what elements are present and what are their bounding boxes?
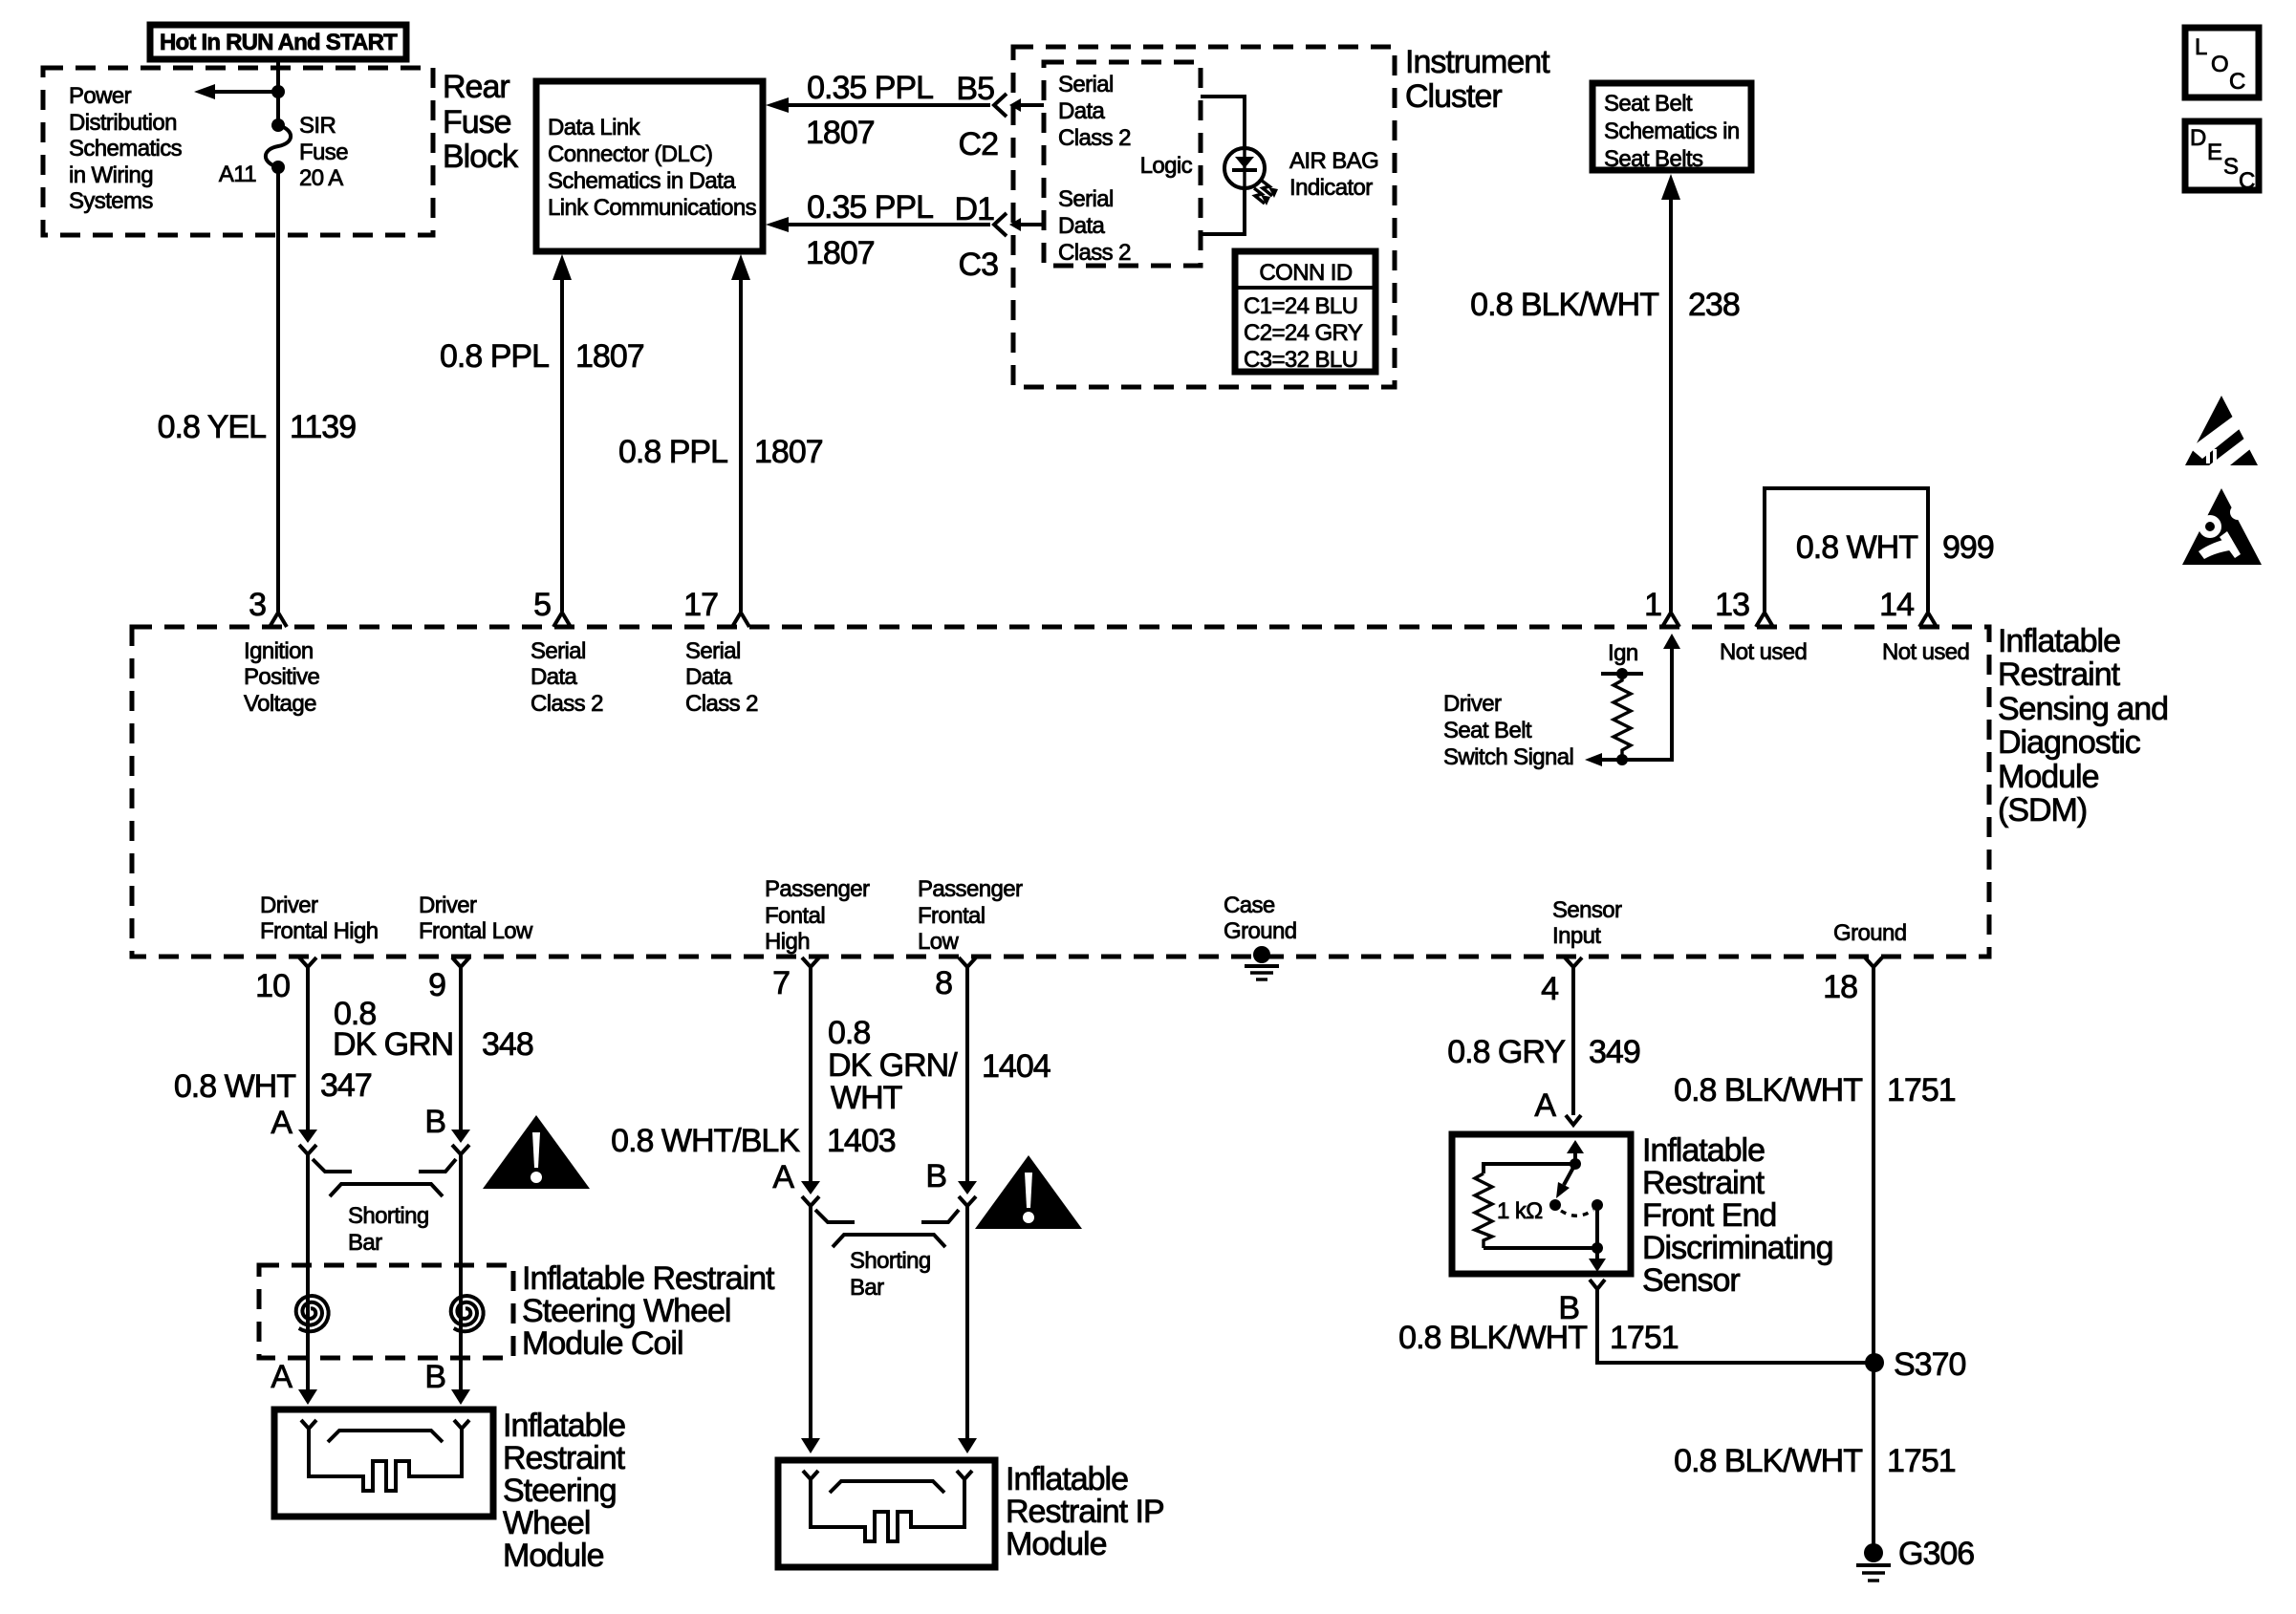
svg-text:A: A bbox=[1534, 1087, 1556, 1124]
svg-text:1807: 1807 bbox=[754, 434, 823, 470]
svg-text:Driver: Driver bbox=[260, 893, 318, 918]
wire from Hot In RUN to fuse bbox=[276, 57, 280, 125]
arrow from instrument cluster D1 bbox=[1009, 218, 1044, 231]
svg-text:1807: 1807 bbox=[806, 115, 875, 151]
svg-text:Logic: Logic bbox=[1140, 153, 1193, 179]
svg-text:Restraint: Restraint bbox=[1642, 1165, 1765, 1201]
svg-text:Schematics: Schematics bbox=[69, 136, 183, 161]
svg-text:1139: 1139 bbox=[290, 409, 356, 445]
svg-text:Ground: Ground bbox=[1224, 918, 1296, 944]
svg-text:C1=24 BLU: C1=24 BLU bbox=[1244, 293, 1357, 319]
terminal B (sensor) bbox=[1558, 1280, 1605, 1326]
svg-text:Low: Low bbox=[918, 929, 959, 955]
svg-text:S: S bbox=[2223, 154, 2238, 180]
svg-text:9: 9 bbox=[428, 967, 445, 1003]
LOC box bbox=[2185, 28, 2259, 97]
svg-text:Frontal High: Frontal High bbox=[260, 918, 379, 944]
pin 7 connector bbox=[802, 958, 819, 967]
svg-text:Sensor: Sensor bbox=[1552, 897, 1622, 923]
svg-text:1751: 1751 bbox=[1887, 1443, 1956, 1479]
svg-text:0.8 WHT: 0.8 WHT bbox=[1796, 529, 1917, 566]
wire 0.8 DK GRN/WHT 1404 pin 8 bbox=[965, 967, 969, 1181]
wire 0.8 PPL 1807 pin 17 to DLC bbox=[731, 254, 750, 612]
svg-text:Frontal Low: Frontal Low bbox=[419, 918, 533, 944]
wire 0.8 DK GRN 348 pin 9 bbox=[459, 967, 463, 1130]
svg-text:Schematics in: Schematics in bbox=[1604, 118, 1740, 144]
IP module box bbox=[778, 1460, 995, 1567]
svg-text:1807: 1807 bbox=[806, 235, 875, 271]
svg-text:E: E bbox=[2207, 140, 2221, 165]
sensor input arrow internal bbox=[1567, 1140, 1584, 1170]
jumper wire 0.8 WHT 999 pins 13-14 bbox=[1765, 488, 1928, 612]
label 0.35 PPL 1807 (bottom) bbox=[806, 189, 933, 271]
ground G306 bbox=[1856, 1536, 1974, 1581]
label 0.8 YEL 1139 bbox=[158, 409, 357, 445]
label AIR BAG Indicator bbox=[1289, 148, 1378, 201]
terminal A (coil upper) bbox=[271, 1105, 317, 1154]
svg-text:Seat Belt: Seat Belt bbox=[1443, 718, 1532, 743]
svg-text:Connector (DLC): Connector (DLC) bbox=[548, 141, 712, 167]
svg-text:Inflatable: Inflatable bbox=[503, 1408, 625, 1444]
svg-text:1403: 1403 bbox=[827, 1123, 896, 1159]
svg-text:WHT: WHT bbox=[831, 1080, 902, 1116]
svg-text:Driver: Driver bbox=[419, 893, 477, 918]
svg-text:Seat Belts: Seat Belts bbox=[1604, 146, 1703, 172]
svg-text:Diagnostic: Diagnostic bbox=[1998, 724, 2141, 761]
wire 0.35 PPL 1807 D1/C3 to DLC bbox=[766, 217, 990, 232]
svg-text:1404: 1404 bbox=[982, 1048, 1051, 1085]
label Inflatable Restraint Steering Wheel Module bbox=[503, 1408, 626, 1574]
terminal A (IP) bbox=[772, 1159, 820, 1206]
label 0.8 BLK/WHT 238 bbox=[1470, 287, 1740, 323]
svg-text:7: 7 bbox=[772, 965, 790, 1001]
label 0.8 GRY 349 bbox=[1447, 1034, 1640, 1070]
wire B into coil bbox=[459, 1154, 463, 1391]
svg-text:C: C bbox=[2239, 168, 2255, 194]
svg-text:Steering Wheel: Steering Wheel bbox=[522, 1293, 730, 1329]
header box Hot In RUN And START bbox=[150, 25, 406, 59]
label 0.8 BLK/WHT 1751 (sensor) bbox=[1398, 1320, 1679, 1356]
svg-text:in Wiring: in Wiring bbox=[69, 162, 153, 188]
svg-text:Positive: Positive bbox=[244, 664, 319, 690]
label Rear Fuse Block bbox=[443, 69, 519, 175]
svg-text:0.8 WHT: 0.8 WHT bbox=[174, 1068, 295, 1105]
svg-text:Power: Power bbox=[69, 83, 132, 109]
svg-text:L: L bbox=[2195, 34, 2207, 60]
svg-text:Sensing and: Sensing and bbox=[1998, 691, 2168, 727]
pin 18 connector bbox=[1865, 958, 1882, 967]
svg-text:Module: Module bbox=[1006, 1526, 1107, 1562]
svg-text:Systems: Systems bbox=[69, 188, 153, 214]
svg-text:Seat Belt: Seat Belt bbox=[1604, 91, 1693, 117]
svg-text:0.8 BLK/WHT: 0.8 BLK/WHT bbox=[1674, 1443, 1862, 1479]
wire 0.8 BLK/WHT 1751 pin 18 bbox=[1872, 967, 1875, 1552]
label Ignition Positive Voltage bbox=[244, 638, 319, 717]
DESC box bbox=[2185, 121, 2259, 194]
svg-text:A11: A11 bbox=[219, 161, 256, 187]
svg-text:A: A bbox=[772, 1159, 794, 1195]
svg-text:Case: Case bbox=[1224, 893, 1275, 918]
svg-text:Ign: Ign bbox=[1608, 640, 1638, 666]
svg-text:Indicator: Indicator bbox=[1289, 175, 1373, 201]
arrow driver seat belt switch signal bbox=[1585, 753, 1622, 766]
svg-text:Distribution: Distribution bbox=[69, 110, 177, 136]
terminal B (IP) bbox=[925, 1158, 977, 1206]
svg-text:CONN ID: CONN ID bbox=[1259, 260, 1352, 286]
svg-text:0.8 PPL: 0.8 PPL bbox=[618, 434, 727, 470]
instrument cluster dashed box bbox=[1013, 47, 1395, 387]
svg-text:Switch Signal: Switch Signal bbox=[1443, 744, 1573, 770]
svg-text:Data Link: Data Link bbox=[548, 115, 641, 140]
svg-text:20 A: 20 A bbox=[299, 165, 343, 191]
arrowhead B into IP module bbox=[958, 1438, 977, 1453]
svg-text:0.8 BLK/WHT: 0.8 BLK/WHT bbox=[1398, 1320, 1587, 1356]
label 0.8 DK GRN 348 bbox=[333, 996, 533, 1063]
label Passenger Fontal High bbox=[765, 876, 870, 955]
svg-text:5: 5 bbox=[533, 587, 551, 623]
svg-text:17: 17 bbox=[683, 587, 718, 623]
svg-text:Restraint IP: Restraint IP bbox=[1006, 1494, 1164, 1530]
steering wheel module box bbox=[274, 1410, 493, 1517]
connector chevron C2 bbox=[994, 94, 1007, 117]
svg-text:347: 347 bbox=[320, 1067, 372, 1104]
wire 0.8 WHT/BLK 1403 pin 7 bbox=[809, 967, 812, 1181]
terminal A (module) bbox=[271, 1359, 317, 1405]
svg-text:D: D bbox=[2190, 125, 2206, 151]
svg-text:0.8 WHT/BLK: 0.8 WHT/BLK bbox=[611, 1123, 800, 1159]
svg-text:Data: Data bbox=[531, 664, 578, 690]
splice S370 bbox=[1865, 1346, 1965, 1383]
warning triangle (passenger) bbox=[975, 1155, 1082, 1229]
label 0.8 DK GRN/WHT 1404 bbox=[828, 1015, 1051, 1116]
label Driver Frontal High bbox=[260, 893, 379, 944]
svg-text:Fuse: Fuse bbox=[299, 140, 348, 165]
connector chevron C3 bbox=[994, 213, 1007, 236]
svg-text:DK GRN: DK GRN bbox=[333, 1026, 453, 1063]
svg-text:Wheel: Wheel bbox=[503, 1505, 590, 1541]
wire 0.8 WHT 347 pin 10 bbox=[306, 967, 310, 1130]
svg-text:10: 10 bbox=[255, 968, 290, 1004]
svg-text:Link Communications: Link Communications bbox=[548, 195, 757, 221]
svg-text:238: 238 bbox=[1688, 287, 1740, 323]
label Shorting Bar (driver) bbox=[348, 1203, 429, 1256]
squib element (steering wheel module) bbox=[301, 1420, 469, 1491]
svg-text:Instrument: Instrument bbox=[1405, 44, 1550, 80]
svg-text:High: High bbox=[765, 929, 810, 955]
arrow from instrument cluster B5 bbox=[1009, 98, 1044, 112]
label Inflatable Restraint Front End Discriminating Sensor bbox=[1642, 1132, 1833, 1299]
svg-text:Fuse: Fuse bbox=[443, 104, 511, 140]
svg-text:Class 2: Class 2 bbox=[1058, 125, 1131, 151]
svg-text:348: 348 bbox=[482, 1026, 533, 1063]
pin 10 connector bbox=[299, 958, 316, 967]
pin 13 connector bbox=[1756, 613, 1773, 627]
resistor seat belt switch pull-up bbox=[1601, 668, 1643, 765]
pin 14 connector bbox=[1919, 613, 1937, 627]
svg-text:Restraint: Restraint bbox=[503, 1440, 626, 1476]
label Power Distribution Schematics in Wiring Systems bbox=[69, 83, 183, 214]
pin 5 connector bbox=[553, 613, 571, 627]
svg-text:1: 1 bbox=[1644, 587, 1661, 623]
pin 4 connector bbox=[1565, 958, 1582, 967]
resistor 1 kOhm bbox=[1475, 1164, 1597, 1248]
svg-text:G306: G306 bbox=[1898, 1536, 1974, 1572]
wire switch to sensor B bbox=[1589, 1205, 1606, 1272]
wire A to IP module bbox=[809, 1206, 812, 1439]
label Inflatable Restraint IP Module bbox=[1006, 1461, 1164, 1562]
svg-text:Inflatable Restraint: Inflatable Restraint bbox=[522, 1260, 775, 1297]
terminal B (module) bbox=[424, 1359, 470, 1405]
wire 0.8 GRY 349 pin 4 bbox=[1571, 967, 1575, 1115]
svg-text:AIR BAG: AIR BAG bbox=[1289, 148, 1378, 174]
svg-text:Ground: Ground bbox=[1833, 920, 1906, 946]
label Inflatable Restraint Steering Wheel Module Coil bbox=[522, 1260, 775, 1362]
label 0.8 BLK/WHT 1751 (to ground) bbox=[1674, 1443, 1956, 1479]
label SIR Fuse 20 A bbox=[299, 113, 348, 191]
svg-text:Class 2: Class 2 bbox=[685, 691, 758, 717]
label 0.35 PPL 1807 (top) bbox=[806, 70, 933, 151]
fuse SIR Fuse 20 A (A11) bbox=[266, 118, 291, 174]
label Serial Data Class 2 (pin 17) bbox=[685, 638, 758, 717]
svg-text:D1: D1 bbox=[955, 191, 995, 227]
label Shorting Bar (passenger) bbox=[850, 1248, 931, 1301]
svg-text:4: 4 bbox=[1541, 971, 1558, 1007]
svg-text:0.35 PPL: 0.35 PPL bbox=[807, 189, 933, 226]
pin 3 connector bbox=[270, 613, 287, 627]
logic inner dashed box bbox=[1044, 62, 1201, 266]
rear fuse block dashed box bbox=[43, 68, 433, 235]
wire resistor to pin 1 internal bbox=[1622, 634, 1680, 760]
svg-text:Inflatable: Inflatable bbox=[1998, 623, 2120, 659]
svg-text:Driver: Driver bbox=[1443, 691, 1502, 717]
svg-text:O: O bbox=[2211, 52, 2228, 77]
svg-text:1 kΩ: 1 kΩ bbox=[1497, 1198, 1543, 1224]
pin 9 connector bbox=[452, 958, 469, 967]
svg-text:Cluster: Cluster bbox=[1405, 78, 1502, 115]
svg-text:C3: C3 bbox=[959, 247, 999, 283]
label Case Ground bbox=[1224, 893, 1296, 944]
svg-text:B: B bbox=[424, 1104, 445, 1140]
wire 0.8 BLK/WHT 238 pin 1 to seat belt bbox=[1661, 174, 1680, 612]
switch arm bbox=[1549, 1164, 1603, 1216]
svg-text:C2=24 GRY: C2=24 GRY bbox=[1244, 320, 1363, 346]
node junction dot bbox=[271, 85, 285, 98]
svg-text:Serial: Serial bbox=[1058, 72, 1114, 97]
svg-text:S370: S370 bbox=[1894, 1346, 1965, 1383]
svg-text:Block: Block bbox=[443, 139, 519, 175]
wire B to IP module bbox=[965, 1206, 969, 1439]
svg-text:Bar: Bar bbox=[850, 1275, 884, 1301]
svg-text:1807: 1807 bbox=[575, 338, 644, 375]
svg-text:8: 8 bbox=[935, 965, 952, 1001]
svg-text:C: C bbox=[2229, 69, 2245, 95]
svg-text:Sensor: Sensor bbox=[1642, 1262, 1740, 1299]
svg-text:Passenger: Passenger bbox=[765, 876, 870, 902]
pin 1 connector bbox=[1662, 613, 1679, 627]
label 0.8 WHT/BLK 1403 bbox=[611, 1123, 896, 1159]
svg-text:Input: Input bbox=[1552, 923, 1601, 949]
svg-text:Serial: Serial bbox=[1058, 186, 1114, 212]
label Inflatable Restraint Sensing and Diagnostic Module (SDM) bbox=[1998, 623, 2168, 829]
label Driver Seat Belt Switch Signal bbox=[1443, 691, 1573, 770]
label Serial Data Class 2 (lower) bbox=[1058, 186, 1131, 266]
label 0.8 BLK/WHT 1751 (pin 18) bbox=[1674, 1072, 1956, 1108]
coil dashed box bbox=[259, 1265, 513, 1358]
svg-text:Discriminating: Discriminating bbox=[1642, 1230, 1833, 1266]
svg-text:Serial: Serial bbox=[685, 638, 741, 664]
svg-text:Frontal: Frontal bbox=[918, 903, 986, 929]
svg-text:Voltage: Voltage bbox=[244, 691, 316, 717]
ESD warning triangle (static) bbox=[2185, 396, 2258, 465]
svg-text:C3=32 BLU: C3=32 BLU bbox=[1244, 347, 1357, 373]
wire logic to air bag indicator bbox=[1201, 97, 1245, 149]
seat belt schematics box bbox=[1592, 83, 1751, 172]
ESD warning triangle (air bag) bbox=[2182, 488, 2262, 565]
svg-text:Hot In RUN And START: Hot In RUN And START bbox=[160, 30, 398, 55]
svg-text:0.8 BLK/WHT: 0.8 BLK/WHT bbox=[1674, 1072, 1862, 1108]
svg-text:Not used: Not used bbox=[1882, 639, 1969, 665]
svg-text:0.8 BLK/WHT: 0.8 BLK/WHT bbox=[1470, 287, 1658, 323]
svg-text:999: 999 bbox=[1942, 529, 1994, 566]
svg-text:Not used: Not used bbox=[1720, 639, 1807, 665]
svg-text:Steering: Steering bbox=[503, 1473, 617, 1509]
pin 8 connector bbox=[959, 958, 976, 967]
wire 0.8 PPL 1807 pin 5 to DLC bbox=[552, 254, 572, 612]
coil spiral B bbox=[451, 1296, 484, 1331]
svg-text:Ignition: Ignition bbox=[244, 638, 314, 664]
svg-text:1751: 1751 bbox=[1610, 1320, 1679, 1356]
label 0.8 PPL 1807 (pin 17) bbox=[618, 434, 823, 470]
svg-text:Data: Data bbox=[1058, 98, 1106, 124]
warning triangle (driver) bbox=[483, 1115, 590, 1189]
wire 0.8 BLK/WHT 1751 sensor B to S370 bbox=[1597, 1289, 1874, 1363]
LED air bag indicator bbox=[1224, 148, 1278, 205]
shorting bar (passenger) bbox=[815, 1210, 959, 1247]
svg-text:Schematics in Data: Schematics in Data bbox=[548, 168, 736, 194]
svg-text:Serial: Serial bbox=[531, 638, 586, 664]
label 0.8 PPL 1807 (pin 5) bbox=[440, 338, 644, 375]
svg-text:Shorting: Shorting bbox=[348, 1203, 429, 1229]
svg-text:DK GRN/: DK GRN/ bbox=[828, 1047, 958, 1084]
svg-text:0.8 GRY: 0.8 GRY bbox=[1447, 1034, 1565, 1070]
svg-text:Inflatable: Inflatable bbox=[1006, 1461, 1128, 1497]
DLC box Data Link Connector bbox=[536, 81, 763, 251]
svg-text:C2: C2 bbox=[959, 126, 999, 162]
shorting bar (driver) bbox=[313, 1159, 456, 1196]
svg-text:18: 18 bbox=[1823, 969, 1857, 1005]
label 0.8 WHT 347 bbox=[174, 1067, 372, 1105]
svg-text:Module: Module bbox=[1998, 759, 2099, 795]
svg-text:349: 349 bbox=[1589, 1034, 1640, 1070]
SDM dashed box (Inflatable Restraint Sensing and Diagnostic Module) bbox=[132, 627, 1989, 957]
label Serial Data Class 2 (upper) bbox=[1058, 72, 1131, 151]
svg-text:Class 2: Class 2 bbox=[531, 691, 603, 717]
svg-text:Shorting: Shorting bbox=[850, 1248, 931, 1274]
svg-text:Restraint: Restraint bbox=[1998, 656, 2121, 693]
svg-text:A: A bbox=[271, 1359, 292, 1395]
svg-text:Rear: Rear bbox=[443, 69, 509, 105]
svg-text:Module: Module bbox=[503, 1538, 604, 1574]
wire A into coil bbox=[306, 1154, 310, 1391]
label Serial Data Class 2 (pin 5) bbox=[531, 638, 603, 717]
svg-text:Passenger: Passenger bbox=[918, 876, 1023, 902]
svg-text:B: B bbox=[424, 1359, 445, 1395]
terminal B (coil upper) bbox=[424, 1104, 470, 1154]
terminal A (sensor) bbox=[1534, 1087, 1581, 1125]
label 0.8 WHT 999 bbox=[1796, 529, 1994, 566]
svg-text:13: 13 bbox=[1715, 587, 1749, 623]
svg-text:1751: 1751 bbox=[1887, 1072, 1956, 1108]
svg-text:B5: B5 bbox=[956, 71, 994, 107]
svg-text:B: B bbox=[925, 1158, 946, 1194]
label Driver Frontal Low bbox=[419, 893, 533, 944]
CONN ID table bbox=[1235, 251, 1375, 373]
svg-text:0.8 YEL: 0.8 YEL bbox=[158, 409, 266, 445]
svg-text:Data: Data bbox=[1058, 213, 1106, 239]
pin 17 connector bbox=[732, 613, 749, 627]
front end sensor box bbox=[1452, 1134, 1631, 1274]
svg-text:14: 14 bbox=[1879, 587, 1914, 623]
svg-text:Module Coil: Module Coil bbox=[522, 1325, 683, 1362]
wire 0.35 PPL 1807 B5/C2 to DLC bbox=[766, 97, 990, 113]
label Instrument Cluster bbox=[1405, 44, 1550, 115]
case ground node and symbol bbox=[1245, 946, 1279, 979]
svg-text:SIR: SIR bbox=[299, 113, 336, 139]
label Passenger Frontal Low bbox=[918, 876, 1023, 955]
wire 0.8 YEL 1139 to pin 3 bbox=[276, 167, 280, 612]
svg-text:Fontal: Fontal bbox=[765, 903, 825, 929]
svg-text:(SDM): (SDM) bbox=[1998, 792, 2087, 829]
svg-text:Data: Data bbox=[685, 664, 733, 690]
wire arrow to power distribution bbox=[194, 84, 278, 99]
svg-text:Class 2: Class 2 bbox=[1058, 240, 1131, 266]
svg-text:Front End: Front End bbox=[1642, 1197, 1776, 1234]
coil spiral A bbox=[296, 1296, 329, 1331]
svg-text:A: A bbox=[271, 1105, 292, 1141]
svg-text:0.8 PPL: 0.8 PPL bbox=[440, 338, 549, 375]
label Sensor Input bbox=[1552, 897, 1622, 949]
wire indicator to logic return bbox=[1201, 188, 1245, 234]
svg-text:0.35 PPL: 0.35 PPL bbox=[807, 70, 933, 106]
svg-text:0.8: 0.8 bbox=[828, 1015, 870, 1051]
svg-text:3: 3 bbox=[249, 587, 266, 623]
arrowhead A into IP module bbox=[801, 1438, 820, 1453]
svg-text:Bar: Bar bbox=[348, 1230, 382, 1256]
svg-text:Inflatable: Inflatable bbox=[1642, 1132, 1765, 1169]
squib element (IP module) bbox=[803, 1471, 972, 1541]
